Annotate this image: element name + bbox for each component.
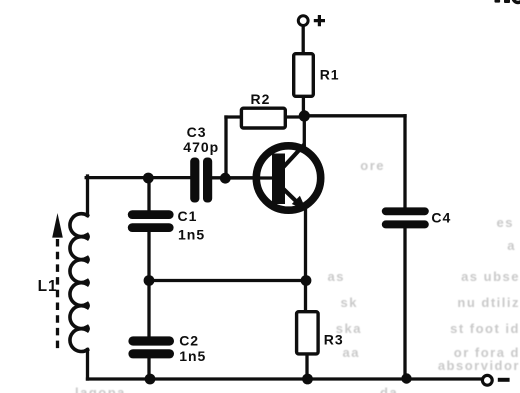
cropped heading text top-right: [495, 0, 520, 3]
emitter arrowhead: [292, 196, 307, 211]
svg-text:a: a: [507, 238, 516, 253]
resistor R1: [294, 54, 314, 97]
svg-text:1n5: 1n5: [179, 348, 206, 364]
wire R2 left lead horizontal: [226, 115, 240, 118]
inductor L1: [70, 214, 88, 352]
wire C3 to base node: [212, 176, 258, 179]
svg-text:aa: aa: [343, 345, 360, 360]
node: bottom rail / C2: [145, 374, 156, 385]
wire emitter tap horizontal: [149, 279, 306, 282]
node: tank top junction: [143, 173, 154, 184]
capacitor C4: [382, 207, 429, 228]
svg-text:L1: L1: [38, 278, 58, 295]
capacitor C1: [128, 210, 174, 232]
wire R2 left lead vertical: [224, 117, 227, 178]
wire middle vertical lower (C2 to bottom rail): [147, 358, 150, 379]
svg-text:da: da: [380, 385, 398, 393]
node: bottom rail / C4: [401, 373, 411, 383]
base bar: [272, 154, 285, 205]
dashed arrow of L1 (coupling indicator): [52, 213, 63, 352]
wire middle vertical (C1 to C2 through tap node): [147, 232, 150, 336]
resistor R2: [241, 108, 285, 128]
svg-text:as ubse: as ubse: [461, 269, 520, 284]
svg-text:st foot id: st foot id: [450, 321, 520, 336]
svg-text:R3: R3: [324, 331, 344, 347]
transistor Q1: [225, 144, 321, 210]
wire R2 right lead: [287, 115, 301, 118]
wire supply terminal to R1: [302, 26, 305, 52]
wire right vertical upper (to C4): [403, 116, 406, 208]
svg-text:ore: ore: [360, 158, 385, 173]
node: emitter tap junction: [301, 275, 312, 286]
node: bottom rail / R3: [302, 374, 313, 385]
wire R3 to bottom rail: [305, 355, 308, 379]
wire collector node to right branch: [302, 114, 405, 117]
collector stroke: [284, 144, 305, 167]
wire middle vertical upper (node to C1): [147, 178, 150, 211]
label + sign: [314, 15, 325, 26]
emitter stroke: [284, 189, 300, 205]
svg-text:C3: C3: [187, 124, 207, 140]
node: collector junction: [299, 110, 310, 121]
wire right vertical lower (C4 to bottom rail): [403, 228, 406, 379]
svg-text:R2: R2: [251, 91, 271, 107]
svg-text:470p: 470p: [183, 139, 219, 155]
wire collector node down to transistor: [303, 112, 306, 146]
wire left vertical upper (to L1 top): [86, 176, 89, 216]
svg-text:1n5: 1n5: [178, 227, 205, 243]
svg-text:C4: C4: [431, 209, 451, 225]
node: tank tap junction: [144, 275, 155, 286]
wire bottom ground rail: [88, 377, 483, 380]
svg-text:R1: R1: [320, 66, 340, 82]
wire emitter vertical (transistor to R3): [304, 209, 307, 311]
svg-text:sk: sk: [341, 295, 358, 310]
svg-text:nu dtiliz: nu dtiliz: [457, 295, 520, 310]
capacitor C2: [128, 336, 174, 358]
wire left vertical lower (L1 bottom to ground rail): [86, 350, 89, 380]
node: base junction: [220, 173, 231, 184]
svg-text:laqopa: laqopa: [75, 385, 126, 393]
terminal - (ground/output): [482, 375, 492, 385]
capacitor C3: [190, 158, 212, 203]
svg-text:as: as: [328, 269, 345, 284]
svg-text:C1: C1: [178, 208, 198, 224]
svg-text:es: es: [497, 215, 514, 230]
label - sign: [498, 378, 510, 382]
wire R1 to collector node: [302, 98, 305, 112]
wire top-left horizontal (tank top to C3): [86, 176, 190, 179]
resistor R3: [297, 312, 319, 354]
svg-text:absorvidor: absorvidor: [438, 358, 520, 373]
svg-text:C2: C2: [179, 332, 199, 348]
terminal + (supply): [298, 16, 308, 26]
wire base (node to base bar): [225, 176, 273, 179]
